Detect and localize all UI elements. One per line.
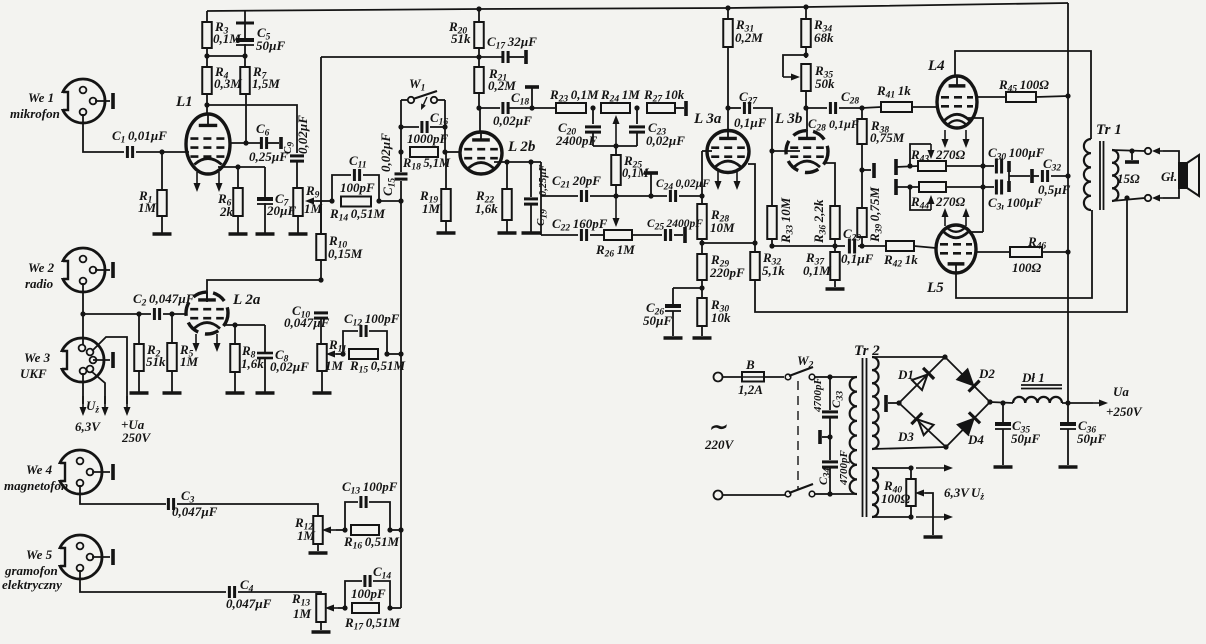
resistor R7 [240, 56, 280, 94]
svg-text:1M: 1M [325, 358, 344, 373]
wire R25 to mid [615, 185, 617, 196]
svg-text:4700pF: 4700pF [812, 377, 824, 414]
svg-text:220V: 220V [704, 437, 735, 452]
jack bottom [1145, 195, 1163, 202]
ground R5 [163, 371, 182, 393]
svg-text:+250V: +250V [1106, 404, 1143, 419]
wire L3a cathode tap [748, 164, 755, 252]
capacitor C10 [284, 303, 330, 330]
svg-text:51k: 51k [451, 31, 471, 46]
terminal R27 [684, 101, 688, 116]
svg-text:UKF: UKF [20, 366, 47, 381]
node R5 top [169, 311, 174, 316]
ground R22 [498, 220, 517, 233]
resistor R42 [883, 241, 918, 270]
connector We5 [55, 535, 110, 579]
switch W2 bottom [722, 484, 830, 497]
resistor R20 [448, 9, 484, 48]
svg-text:L4: L4 [927, 58, 945, 74]
svg-text:B: B [745, 357, 755, 372]
capacitor C27 [728, 89, 767, 130]
svg-text:∼: ∼ [708, 414, 727, 439]
svg-text:100Ω: 100Ω [881, 491, 911, 506]
node R6 top [235, 164, 240, 169]
resistor R34 [801, 7, 834, 47]
wire HV bottom [872, 447, 946, 449]
ground R19 [437, 221, 456, 233]
resistor R21 [474, 57, 516, 93]
ground R11 [313, 371, 332, 393]
terminal R44 [896, 179, 919, 195]
node tone loop [613, 143, 618, 148]
wire HV top [872, 356, 945, 358]
svg-text:D2: D2 [978, 366, 995, 381]
svg-text:1,2A: 1,2A [738, 382, 763, 397]
wire cathode bias bus [772, 239, 845, 246]
wire R9 wiper [316, 200, 332, 202]
wire R34 to R35 node [805, 47, 807, 58]
node L3b grid [769, 148, 800, 153]
svg-text:R27 10k: R27 10k [643, 87, 685, 105]
label We3 [20, 350, 51, 381]
wire L5 anode [956, 210, 1092, 298]
ground C8 [256, 358, 275, 393]
capacitor C22 [552, 216, 608, 241]
node L2b anode [476, 105, 481, 110]
svg-text:0,1µF: 0,1µF [829, 117, 859, 131]
svg-text:0,3M: 0,3M [214, 76, 242, 91]
resistor R16 [343, 525, 400, 552]
resistor R30 [697, 297, 731, 326]
arrow 63V [80, 396, 87, 416]
capacitor C18 [479, 90, 532, 128]
svg-text:6,3V: 6,3V [75, 419, 101, 434]
resistor R2 [134, 314, 166, 371]
node C33 top [827, 374, 832, 379]
svg-text:1,6k: 1,6k [475, 201, 498, 216]
wire R10 to L2a anode [320, 260, 322, 280]
label Uz [86, 398, 99, 416]
wire choke to Ua [1062, 400, 1108, 407]
svg-text:0,15M: 0,15M [328, 246, 363, 261]
svg-text:0,25µF: 0,25µF [538, 165, 549, 196]
wire W1 right leg [444, 100, 446, 152]
node C34 bottom [827, 491, 832, 496]
terminal pin We3 [111, 352, 115, 368]
svg-text:0,047µF: 0,047µF [284, 315, 330, 330]
svg-text:We 5: We 5 [26, 547, 53, 562]
resistor R4 [202, 56, 242, 94]
potentiometer R13 [291, 591, 338, 622]
resistor R6 [217, 167, 243, 219]
ground R1 [153, 216, 172, 234]
wire secondary bottom [1112, 198, 1145, 201]
svg-text:51k: 51k [146, 354, 166, 369]
wire R3 to node [206, 48, 208, 56]
node input bus [80, 311, 85, 316]
ground R2 [130, 371, 149, 393]
terminal mains bottom [714, 491, 723, 500]
wire input to C2 [83, 313, 151, 315]
wire C29 to R42 [858, 245, 886, 247]
ground R12 [309, 544, 328, 553]
svg-text:D3: D3 [897, 429, 914, 444]
svg-text:6,3V: 6,3V [944, 485, 970, 500]
svg-text:20µF: 20µF [266, 203, 296, 218]
wire W1 left leg [400, 100, 402, 152]
svg-text:C17 32µF: C17 32µF [487, 34, 537, 52]
svg-text:0,1M: 0,1M [803, 263, 831, 278]
resistor R5 [167, 314, 198, 371]
ground R6 [229, 216, 248, 234]
choke Dl1 [1013, 370, 1062, 403]
connector We2 [58, 248, 110, 292]
jack top [1145, 148, 1163, 155]
wire L1 cathode [218, 166, 265, 168]
svg-text:R33 10M: R33 10M [778, 197, 796, 244]
tube L5 [926, 225, 976, 296]
node C36 tap [1065, 400, 1070, 405]
node fb bus / R16 [398, 527, 403, 532]
svg-text:270Ω: 270Ω [935, 147, 966, 162]
wire L4 anode to top [955, 51, 1091, 139]
svg-text:10k: 10k [711, 310, 731, 325]
potentiometer R40 [881, 468, 925, 517]
node fb bus / R15 [398, 351, 403, 356]
svg-text:0,02µF: 0,02µF [378, 133, 393, 172]
arrow R24 wiper [613, 115, 620, 146]
svg-text:R17 0,51M: R17 0,51M [344, 615, 401, 633]
svg-text:1M: 1M [180, 354, 199, 369]
node R15 left [340, 351, 345, 356]
resistor R14 [329, 197, 386, 224]
label We1 [10, 90, 60, 121]
link W2 dashed [797, 381, 799, 489]
wire R31 to anode [727, 47, 729, 108]
svg-text:R14 0,51M: R14 0,51M [329, 206, 386, 224]
node R16 right [387, 527, 401, 532]
capacitor C32 [1032, 156, 1071, 197]
svg-text:5,1k: 5,1k [762, 263, 785, 278]
wire L4 cathode drop [968, 118, 983, 232]
wire We2 to node [82, 283, 84, 345]
svg-text:D4: D4 [967, 432, 984, 447]
node C26 tap [673, 285, 705, 290]
capacitor C1 [112, 128, 167, 158]
node L3a grid [699, 193, 704, 198]
wire C4 to R13 [238, 592, 321, 594]
wire bridge out [990, 402, 1013, 403]
node R33 bottom [769, 243, 774, 248]
svg-text:C1 0,01µF: C1 0,01µF [112, 128, 167, 146]
wire R46 to bus [1042, 251, 1068, 253]
node C17 [476, 54, 481, 59]
node R24/R27 [634, 105, 639, 110]
svg-text:10M: 10M [710, 220, 735, 235]
transformer Tr2 heater winding [872, 468, 878, 517]
resistor R32 [750, 250, 785, 280]
svg-text:0,5µF: 0,5µF [1038, 182, 1071, 197]
svg-text:C12 100pF: C12 100pF [344, 311, 400, 329]
node mid terminal [648, 193, 653, 198]
wire R35 to anode [805, 91, 807, 108]
wire R42 to L5 grid [914, 246, 936, 248]
ground R8 [226, 372, 245, 393]
transformer Tr1 primary [1084, 122, 1122, 210]
node R14 right [376, 198, 401, 203]
svg-text:1M: 1M [138, 200, 157, 215]
wire C6 out [267, 142, 279, 144]
capacitor C29 [841, 226, 874, 266]
ground R30 [693, 326, 712, 338]
terminal C18 [525, 87, 539, 108]
transformer Tr1 core [1100, 141, 1104, 210]
wire We5 to C4 [80, 570, 226, 592]
switch W1 [401, 76, 445, 110]
svg-text:50µF: 50µF [1011, 431, 1040, 446]
node R16 left [342, 527, 347, 532]
wire R36 to low node [834, 239, 836, 246]
wire heater top [872, 465, 953, 472]
node bridge left [896, 400, 901, 405]
node R43 left [907, 163, 912, 168]
svg-text:elektryczny: elektryczny [2, 577, 62, 592]
wire L4 screen to R45 [975, 96, 1006, 98]
svg-text:0,2M: 0,2M [735, 30, 763, 45]
svg-text:C21 20pF: C21 20pF [552, 173, 601, 191]
wire heater bottom [872, 514, 953, 521]
tube L3a [693, 108, 749, 173]
node R7 bottom [243, 94, 248, 146]
svg-text:We 4: We 4 [26, 462, 53, 477]
wire We3 bottom pin [82, 373, 84, 404]
wire C30/C31 mid [1009, 172, 1030, 181]
resistor R39 [857, 186, 884, 243]
capacitor C9 [282, 115, 310, 161]
cathode arrows L4 [942, 130, 970, 148]
resistor R38 [857, 108, 905, 145]
wire L2b cath to tone [540, 162, 542, 235]
node C16 right [442, 124, 447, 129]
resistor R31 [723, 8, 763, 47]
wire W2 to Tr2 bottom [830, 493, 857, 495]
svg-text:R24 1M: R24 1M [600, 87, 640, 105]
node R38/R39 tap [859, 167, 871, 172]
transformer Tr1 secondary [1112, 150, 1118, 201]
svg-text:0,047µF: 0,047µF [226, 596, 272, 611]
svg-text:L 2a: L 2a [232, 292, 261, 308]
potentiometer R44 [910, 182, 966, 212]
ground R13 [312, 622, 331, 632]
node R45 bus [1065, 93, 1070, 98]
resistor R1 [138, 152, 167, 216]
node L3b anode [803, 105, 808, 110]
wire R41 to L4 grid [912, 106, 937, 108]
wire R4 to L1 anode [206, 94, 208, 114]
wire secondary top [1112, 150, 1145, 151]
svg-text:L 3a: L 3a [693, 111, 722, 127]
capacitor C2 [133, 291, 195, 320]
svg-text:R36 2,2k: R36 2,2k [811, 199, 829, 244]
wire L2b cathode [494, 161, 541, 163]
wire R26 to C25 [632, 234, 662, 236]
resistor R29 [697, 252, 745, 280]
connector We4 [55, 450, 110, 494]
node R23/R24 [590, 105, 595, 110]
capacitor C30 [988, 145, 1045, 174]
svg-text:50µF: 50µF [256, 38, 285, 53]
wire jack top to speaker [1163, 151, 1179, 163]
node C18 out [529, 105, 556, 110]
wire R11 wiper [336, 353, 343, 355]
wire right vertical B+ bus [1067, 3, 1069, 403]
capacitor C36 [1060, 403, 1106, 446]
node R15 right [384, 351, 401, 356]
capacitor C11 [332, 153, 379, 201]
svg-text:68k: 68k [814, 30, 834, 45]
node C32 bus [1065, 173, 1070, 178]
capacitor C28 [806, 89, 862, 134]
ground R40 [924, 535, 943, 539]
resistor R36 [811, 199, 840, 244]
node C35 tap [1000, 400, 1005, 405]
svg-text:We 3: We 3 [24, 350, 51, 365]
wire We4 to C3 [80, 485, 166, 504]
svg-text:100pF: 100pF [340, 180, 375, 195]
node R18 left [398, 149, 403, 154]
svg-text:C3ı 100µF: C3ı 100µF [988, 195, 1043, 213]
arrow +Ua [124, 396, 131, 416]
capacitor C8 [257, 325, 309, 374]
capacitor C17 [487, 34, 537, 64]
svg-text:1000pF: 1000pF [407, 131, 449, 146]
connector We3 [57, 338, 110, 382]
resistor R8 [230, 325, 264, 372]
resistor R46 [1010, 234, 1046, 275]
wire anode to C9 [207, 105, 297, 153]
connector We1 [58, 79, 110, 123]
wire C3 to R12 [177, 504, 318, 516]
wire R39 bottom [861, 237, 863, 246]
transformer Tr2 primary [850, 343, 881, 494]
node C19 top [528, 159, 533, 164]
wire feedback bus upper [400, 152, 402, 172]
node R2 top [136, 311, 141, 316]
ground C26 [664, 311, 683, 338]
capacitor C12 [343, 311, 400, 354]
node cathode/R44 [980, 184, 985, 189]
resistor R24 [600, 87, 640, 113]
arrow R26 wiper [613, 196, 620, 227]
cathode arrows L3a [715, 170, 741, 190]
wire R29 to R30 [701, 280, 703, 298]
resistor R28 [697, 196, 735, 239]
resistor R33 [767, 197, 795, 244]
terminal pin We5 [111, 549, 115, 565]
svg-text:50µF: 50µF [643, 313, 672, 328]
tube L3b [774, 108, 828, 173]
wire C10 to R11 [320, 318, 322, 344]
node cathode/R43 [980, 163, 985, 168]
node heater bottom [908, 514, 913, 519]
ground R9 [289, 216, 308, 234]
node bridge right [987, 399, 992, 404]
svg-text:50µF: 50µF [1077, 431, 1106, 446]
svg-text:0,02µF: 0,02µF [295, 115, 310, 154]
svg-text:0,02µF: 0,02µF [646, 133, 685, 148]
svg-text:4700pF: 4700pF [838, 450, 850, 487]
tube L1 [175, 94, 230, 174]
wire mid tone [541, 195, 578, 197]
svg-text:We 2: We 2 [28, 260, 55, 275]
svg-text:0,75M: 0,75M [870, 130, 905, 145]
potentiometer R12 [294, 515, 336, 544]
wire C2 to grid [163, 313, 187, 315]
wire L1 g2 [229, 142, 260, 144]
svg-text:1M: 1M [304, 201, 323, 216]
wire low tone [541, 234, 578, 236]
wire grid riser L3a [702, 151, 712, 196]
wire C1 to L1 grid [136, 151, 189, 153]
resistor R37 [803, 246, 840, 280]
resistor R23 [549, 87, 599, 113]
label heater out [944, 485, 984, 503]
capacitor C20 [555, 108, 601, 148]
wire decoupled supply line y57 [321, 56, 502, 58]
node C5 bottom [242, 53, 247, 58]
node L2a anode rail [318, 277, 323, 282]
wire C24 to L3a [679, 195, 702, 197]
switch W2 top [785, 353, 830, 380]
capacitor C31 [988, 180, 1043, 213]
wire tone loop [593, 145, 637, 147]
tube L2a [186, 292, 261, 335]
svg-text:C30 100µF: C30 100µF [988, 145, 1045, 163]
wire L2a anode [207, 280, 321, 302]
svg-text:0,02µF: 0,02µF [270, 359, 309, 374]
transformer Tr2 HV secondary [872, 357, 879, 449]
wire L3b cathode tap [825, 163, 835, 206]
wire R20 to node [478, 48, 480, 57]
svg-text:100Ω: 100Ω [1012, 260, 1042, 275]
capacitor C23 [629, 108, 685, 148]
svg-text:R15 0,51M: R15 0,51M [349, 358, 406, 376]
wire L5 screen to R46 [975, 251, 1010, 253]
svg-text:220pF: 220pF [709, 265, 745, 280]
wire top B+ distribution bus [207, 3, 1068, 12]
tube L2b [460, 108, 536, 174]
node C16 left [398, 124, 403, 129]
tube L4 [927, 58, 977, 128]
wire R28 to R29 [701, 239, 703, 254]
resistor R17 [344, 603, 401, 633]
svg-text:0,1µF: 0,1µF [734, 115, 767, 130]
capacitor C6 [249, 121, 288, 164]
label We5 [2, 547, 62, 592]
terminal R38 tap [872, 163, 876, 178]
node R36/R37 [832, 243, 837, 248]
svg-text:100pF: 100pF [351, 586, 386, 601]
potentiometer R11 [317, 337, 346, 373]
svg-text:1M: 1M [293, 606, 312, 621]
capacitor C25 [647, 218, 703, 241]
label 220V [704, 414, 735, 452]
potentiometer R35 loop [783, 55, 835, 91]
capacitor C16 [401, 110, 449, 146]
wire left feedback drop x321 [320, 57, 322, 234]
svg-text:C13 100pF: C13 100pF [342, 479, 398, 497]
node R28 bottom [699, 240, 755, 245]
